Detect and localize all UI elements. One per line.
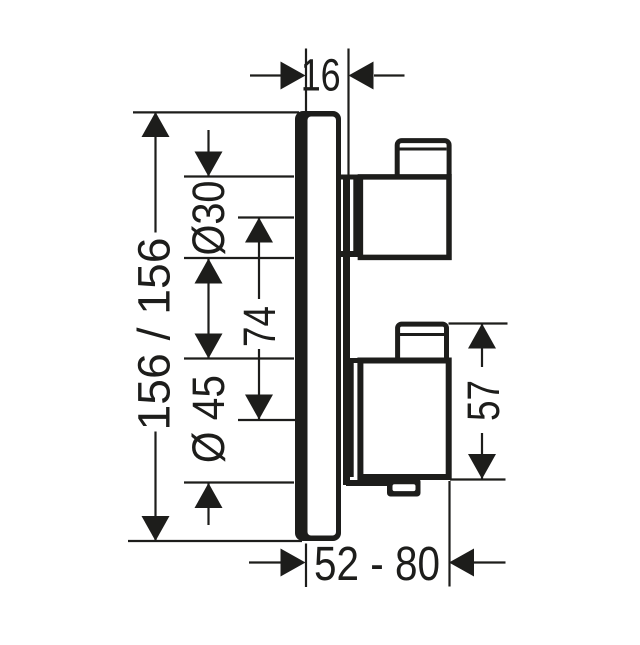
svg-text:57: 57 (458, 380, 509, 421)
svg-text:52 - 80: 52 - 80 (314, 538, 440, 591)
svg-text:16: 16 (301, 50, 341, 101)
svg-text:Ø 45: Ø 45 (183, 375, 234, 463)
svg-text:156 / 156: 156 / 156 (129, 238, 180, 431)
svg-text:74: 74 (234, 306, 285, 347)
svg-text:Ø30: Ø30 (183, 181, 234, 256)
